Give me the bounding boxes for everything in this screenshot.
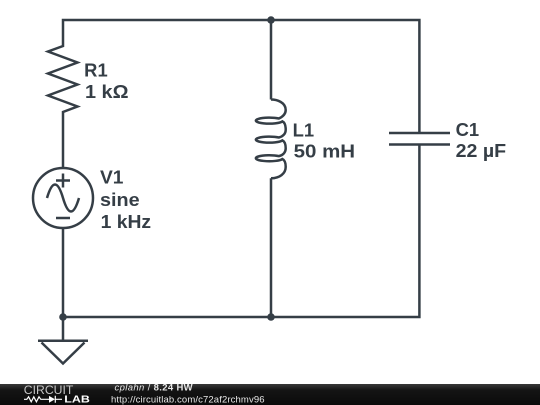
svg-text:22 µF: 22 µF [456,141,507,161]
svg-text:1 kHz: 1 kHz [101,212,152,232]
svg-text:LAB: LAB [64,395,90,405]
svg-text:50 mH: 50 mH [294,142,356,162]
svg-text:1 kΩ: 1 kΩ [85,82,129,102]
svg-text:sine: sine [100,190,140,210]
svg-text:R1: R1 [84,60,108,80]
svg-text:V1: V1 [100,168,124,188]
svg-text:C1: C1 [456,120,480,140]
svg-text:http://circuitlab.com/c72af2rc: http://circuitlab.com/c72af2rchmv96 [111,394,265,405]
svg-text:cplahn / 8.24 HW: cplahn / 8.24 HW [115,383,193,394]
svg-text:L1: L1 [293,120,315,140]
